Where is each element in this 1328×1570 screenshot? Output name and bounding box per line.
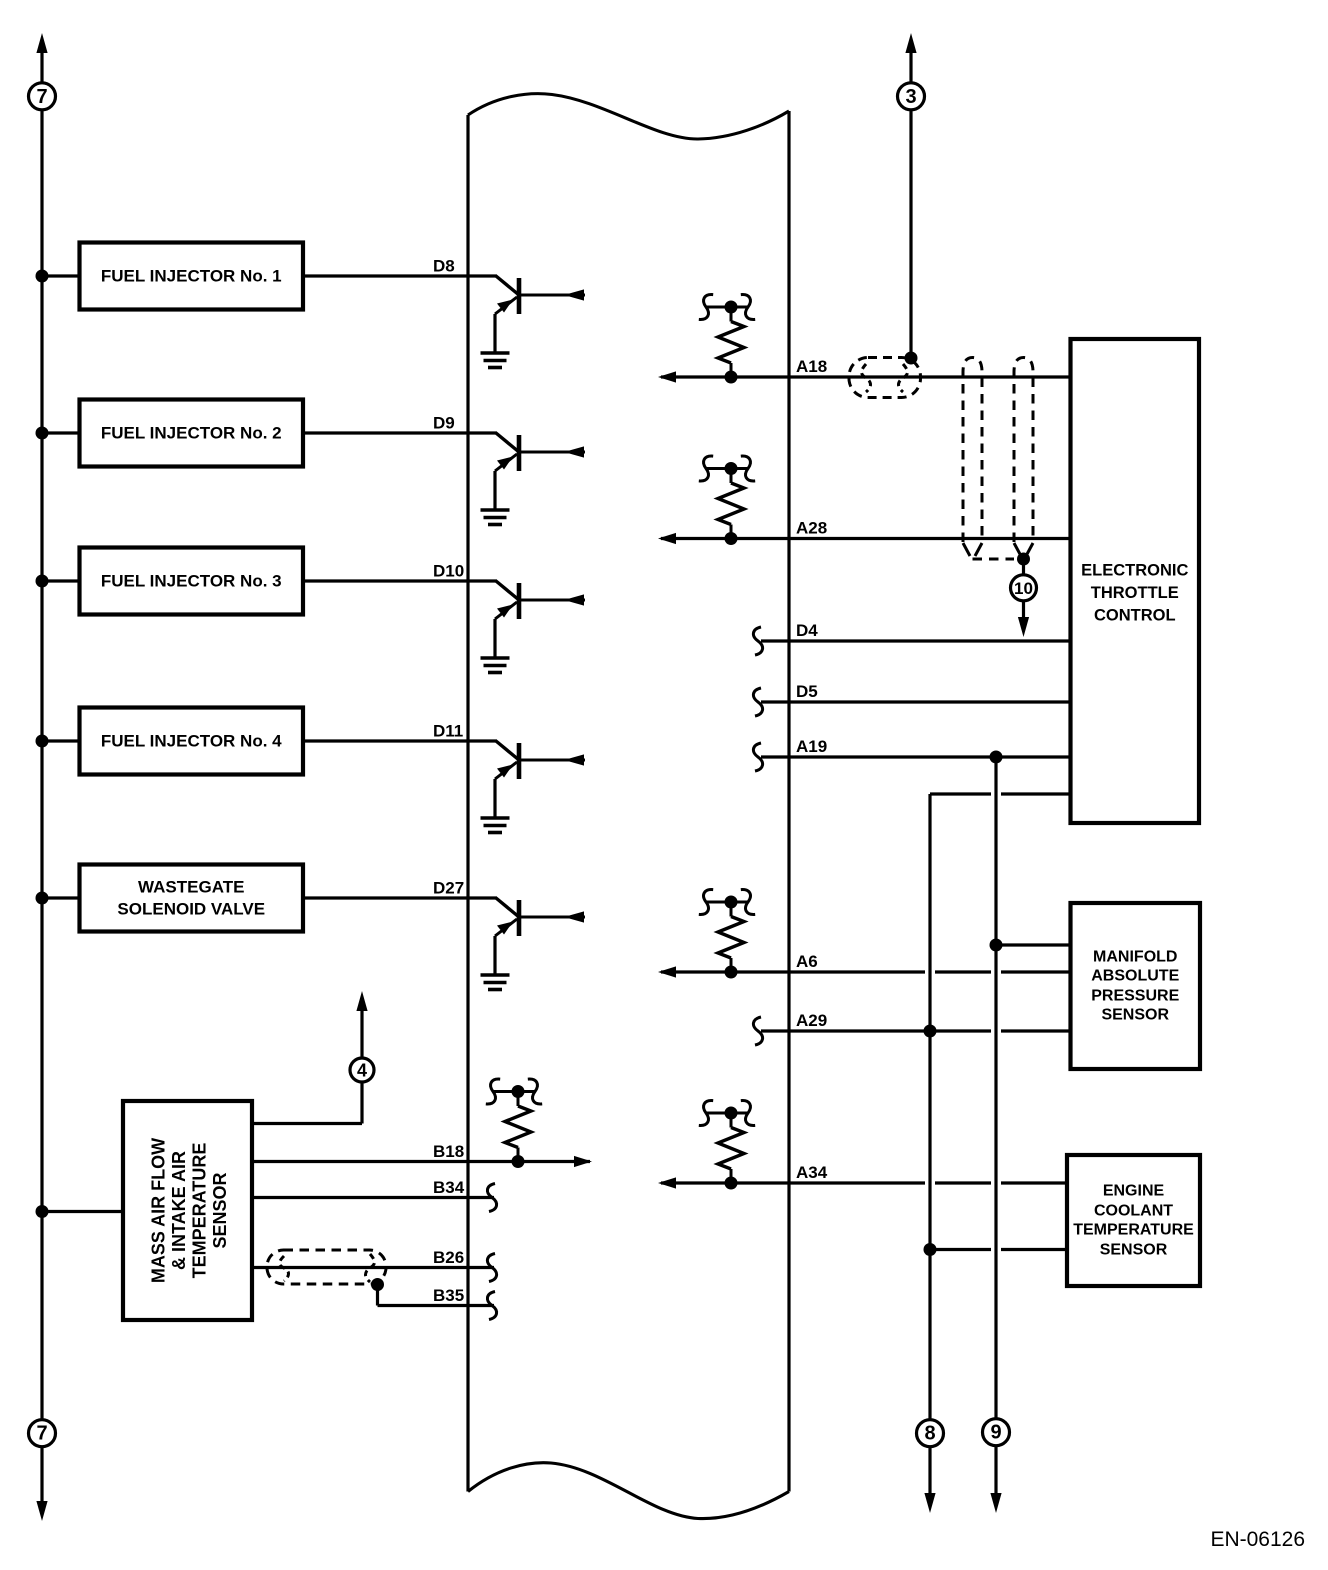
ECM band torn bottom edge [468,1463,789,1519]
junction dot on bus at FUEL INJECTOR No. 1 [36,270,49,283]
wire A28: ETC to ECM [658,533,1071,544]
resistor R A34 (ECM pull-up) [697,1098,756,1189]
svg-text:MASS AIR FLOW: MASS AIR FLOW [149,1138,169,1283]
ground of Q D27 [481,975,510,990]
wire bus to FUEL INJECTOR No. 4 [42,739,80,742]
svg-text:SENSOR: SENSOR [1101,1007,1169,1024]
svg-text:COOLANT: COOLANT [1094,1202,1173,1219]
wire D11: FUEL INJECTOR No. 4 to ECM transistor [303,739,497,742]
ENGINE COOLANT TEMPERATURE SENSOR box [1067,1155,1200,1286]
svg-text:A29: A29 [796,1011,827,1030]
node 3 wire with arrow up [905,33,916,358]
wire MAF to node 4 [252,1082,362,1124]
junction dot on bus at FUEL INJECTOR No. 4 [36,735,49,748]
ECM band left edge [466,115,469,1492]
FUEL INJECTOR No. 1 box [80,243,304,310]
FUEL INJECTOR No. 2 box [80,400,304,467]
junction dot A29 [924,1025,937,1038]
MANIFOLD ABSOLUTE PRESSURE SENSOR box [1071,903,1201,1069]
ELECTRONIC THROTTLE CONTROL box [1071,339,1200,823]
node 3 (circled 3) [898,83,925,110]
wire A18: ETC to ECM [658,371,1071,382]
wire bus to FUEL INJECTOR No. 1 [42,274,80,277]
svg-text:7: 7 [36,1423,47,1445]
break mark A19 [753,743,762,771]
svg-text:D9: D9 [433,414,455,433]
wire bus to FUEL INJECTOR No. 2 [42,431,80,434]
transistor Q D9 [495,433,585,510]
svg-text:TEMPERATURE: TEMPERATURE [1073,1222,1194,1239]
ground of Q D11 [481,818,510,833]
svg-text:& INTAKE AIR: & INTAKE AIR [169,1151,189,1270]
node 9 (circled 9) [983,1419,1010,1446]
wire MAP supply from A19 bus [990,939,1071,952]
ECM band right edge [787,111,790,1492]
svg-text:A28: A28 [796,519,827,538]
wire bus to wastegate [42,896,80,899]
svg-text:ELECTRONIC: ELECTRONIC [1081,562,1188,580]
node 10 wire with arrow down [1018,559,1029,637]
svg-text:FUEL INJECTOR No. 3: FUEL INJECTOR No. 3 [101,572,282,591]
svg-text:WASTEGATE: WASTEGATE [138,878,244,897]
break mark D5 [753,688,762,716]
break mark D4 [753,627,762,655]
WASTEGATE SOLENOID VALVE box [80,865,304,932]
svg-text:D27: D27 [433,879,464,898]
junction dot A19 [990,751,1003,764]
transistor Q D8 [495,276,585,353]
svg-text:SENSOR: SENSOR [1100,1241,1168,1258]
wire D4: ETC stub [761,639,1071,642]
shield drain dot at node 10 [1017,553,1030,566]
ground of Q D9 [481,510,510,525]
wire D8: FUEL INJECTOR No. 1 to ECM transistor [303,274,497,277]
FUEL INJECTOR No. 4 box [80,708,304,775]
shield around B26 wire [267,1250,386,1284]
wire ECT ground to vertical bus 8 [924,1243,1068,1256]
svg-text:ABSOLUTE: ABSOLUTE [1091,968,1179,985]
wire A19: ETC stub [761,755,1071,758]
shield left (twisted pair to node 10) [963,358,982,557]
svg-text:4: 4 [357,1061,367,1081]
transistor Q D27 [495,898,585,975]
junction dot on bus at wastegate [36,892,49,905]
resistor R A18 (ECM pull-up) [697,292,756,383]
svg-text:B26: B26 [433,1248,464,1267]
resistor R A6 (ECM pull-up) [697,887,756,978]
MASS AIR FLOW & INTAKE AIR TEMPERATURE SENSOR box [123,1101,252,1320]
svg-text:MANIFOLD: MANIFOLD [1093,948,1177,965]
wire ETC ground pin to vertical bus 8 [930,792,1071,795]
svg-text:10: 10 [1014,579,1033,598]
shield right (twisted pair to node 10) [1014,358,1033,557]
junction dot on bus at MAF sensor [36,1205,49,1218]
wire D10: FUEL INJECTOR No. 3 to ECM transistor [303,579,497,582]
vertical wire to node 8 [924,794,935,1513]
shield around A18 wire [849,358,921,398]
break mark A29 [753,1017,762,1045]
wire D5: ETC stub [761,700,1071,703]
svg-text:PRESSURE: PRESSURE [1091,987,1179,1004]
resistor R B18 (ECM pull-up) [484,1077,543,1168]
svg-text:THROTTLE: THROTTLE [1091,584,1179,602]
svg-text:B18: B18 [433,1142,464,1161]
junction dot on bus at FUEL INJECTOR No. 3 [36,575,49,588]
node 8 (circled 8) [917,1420,944,1447]
svg-text:A6: A6 [796,952,818,971]
svg-text:FUEL INJECTOR No. 4: FUEL INJECTOR No. 4 [101,732,282,751]
junction dot on bus at FUEL INJECTOR No. 2 [36,427,49,440]
shield drain dot at node 3 [905,352,918,365]
break mark B35 [487,1292,496,1320]
svg-text:D5: D5 [796,682,818,701]
wire B26: MAF to ECM [252,1266,494,1269]
FUEL INJECTOR No. 3 box [80,548,304,615]
break mark B26 [487,1254,496,1282]
svg-text:SOLENOID VALVE: SOLENOID VALVE [117,900,265,919]
ground of Q D10 [481,658,510,673]
svg-text:FUEL INJECTOR No. 2: FUEL INJECTOR No. 2 [101,424,282,443]
svg-text:CONTROL: CONTROL [1094,607,1176,625]
svg-text:D11: D11 [433,722,463,741]
svg-text:ENGINE: ENGINE [1103,1183,1165,1200]
svg-text:SENSOR: SENSOR [210,1172,230,1248]
break mark B34 [487,1184,496,1212]
shield drain dot [371,1278,384,1291]
svg-text:TEMPERATURE: TEMPERATURE [190,1143,210,1279]
node 4 (circled 4) [350,1058,374,1082]
wire B18: MAF to ECM [252,1156,592,1167]
svg-text:FUEL INJECTOR No. 1: FUEL INJECTOR No. 1 [101,267,282,286]
svg-text:9: 9 [990,1422,1001,1444]
wire D9: FUEL INJECTOR No. 2 to ECM transistor [303,431,497,434]
svg-text:A19: A19 [796,737,827,756]
wire B34: MAF to ECM [252,1196,494,1199]
svg-text:3: 3 [905,86,916,108]
svg-text:A34: A34 [796,1163,828,1182]
svg-text:B35: B35 [433,1286,464,1305]
svg-text:A18: A18 [796,357,827,376]
svg-text:EN-06126: EN-06126 [1210,1528,1305,1551]
ECM band torn top edge [468,94,789,139]
transistor Q D10 [495,581,585,658]
node 4 arrow up [356,991,367,1058]
wire A34: ECT signal to ECM [658,1177,1067,1188]
shield bus to node 10 [973,558,1015,561]
svg-text:D4: D4 [796,621,818,640]
wire B35: shield drain to ECM [378,1285,495,1306]
node 7 top (circled 7) [29,83,56,110]
wire bus to FUEL INJECTOR No. 3 [42,579,80,582]
node 10 (circled 10) [1011,575,1037,601]
wire bus to MAF sensor [42,1210,124,1213]
ground of Q D8 [481,353,510,368]
svg-text:B34: B34 [433,1178,465,1197]
wire A6: MAP signal to ECM [658,966,1071,977]
node 7 bottom (circled 7) [29,1420,56,1447]
transistor Q D11 [495,741,585,818]
vertical wire A19 to node 9 [990,757,1001,1513]
resistor R A28 (ECM pull-up) [697,454,756,545]
svg-text:D8: D8 [433,257,455,276]
wire A29: MAP ground to ECM [761,1029,1071,1032]
wire D27: wastegate to ECM transistor [303,896,497,899]
svg-text:7: 7 [36,86,47,108]
svg-text:8: 8 [924,1423,935,1445]
svg-text:D10: D10 [433,562,464,581]
left power bus (node 7) [36,33,47,1521]
